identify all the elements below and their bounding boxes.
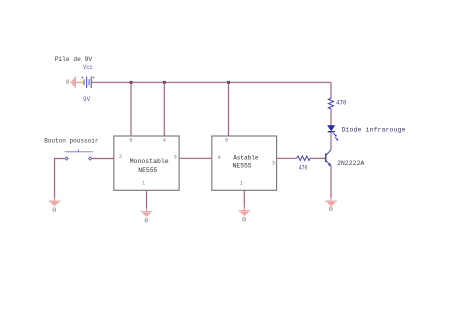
svg-text:1: 1 bbox=[142, 180, 145, 186]
resistor R2 470 horizontal bbox=[297, 156, 311, 161]
ground under button bbox=[49, 198, 61, 206]
svg-text:Astable: Astable bbox=[233, 154, 258, 161]
svg-text:8: 8 bbox=[225, 138, 228, 144]
pin 3 astable bbox=[272, 160, 275, 166]
wire rail to monostable pin 4 bbox=[163, 82, 165, 136]
svg-text:2N2222A: 2N2222A bbox=[337, 160, 364, 167]
pin 4 monostable bbox=[163, 138, 166, 144]
label 470 horizontal bbox=[299, 165, 308, 172]
svg-text:Bouton poussoir: Bouton poussoir bbox=[44, 137, 98, 144]
ground at battery (rotated) bbox=[71, 77, 84, 88]
wire rail to astable pin 8 bbox=[228, 82, 230, 136]
pin 8 monostable bbox=[129, 138, 132, 144]
svg-text:Monostable: Monostable bbox=[130, 158, 169, 165]
label Vcc bbox=[83, 64, 93, 71]
pin 1 astable bbox=[240, 181, 243, 187]
ground under astable bbox=[239, 207, 251, 215]
svg-text:0: 0 bbox=[329, 206, 333, 214]
svg-text:8: 8 bbox=[129, 138, 132, 144]
wire monostable pin3 to astable pin4 bbox=[179, 157, 212, 159]
junction at pin4 monostable bbox=[163, 81, 166, 84]
label 470 vertical bbox=[336, 100, 347, 107]
label Bouton poussoir bbox=[44, 137, 98, 144]
svg-text:2: 2 bbox=[119, 154, 122, 160]
svg-text:Vcc: Vcc bbox=[83, 64, 93, 71]
pin 1 monostable bbox=[142, 180, 145, 186]
label Astable bbox=[233, 154, 258, 161]
svg-text:4: 4 bbox=[163, 138, 166, 144]
op box astable NE555 U2 bbox=[212, 136, 277, 190]
op box monostable NE555 U1 bbox=[114, 136, 179, 190]
svg-text:470: 470 bbox=[299, 165, 308, 172]
battery V1 9V bbox=[82, 77, 95, 89]
ground under monostable bbox=[141, 208, 153, 216]
svg-text:0: 0 bbox=[52, 207, 56, 215]
pushbutton SW1 bbox=[65, 149, 93, 160]
wire resistor R2 to transistor base bbox=[310, 157, 325, 159]
wire rail to monostable pin 8 bbox=[130, 82, 132, 136]
node 0 at battery bbox=[66, 79, 70, 86]
svg-text:1: 1 bbox=[240, 181, 243, 187]
pin 8 astable bbox=[225, 138, 228, 144]
node 0 under transistor bbox=[329, 206, 333, 214]
label 9V bbox=[83, 96, 90, 103]
wire astable pin3 to resistor R2 bbox=[277, 157, 297, 159]
wire button left to ground bbox=[55, 159, 65, 199]
label 2N2222A bbox=[337, 160, 364, 167]
junction at pin8 monostable bbox=[130, 81, 133, 84]
label Pile de 9V bbox=[55, 56, 93, 63]
resistor R1 470 vertical bbox=[328, 98, 333, 110]
label Diode infrarouge bbox=[342, 127, 406, 134]
svg-text:3: 3 bbox=[272, 160, 275, 166]
node 0 under astable bbox=[242, 217, 246, 225]
svg-text:NE555: NE555 bbox=[138, 167, 157, 174]
node 0 under button bbox=[52, 207, 56, 215]
wire Vcc rail bbox=[92, 82, 331, 98]
wire astable pin1 to ground bbox=[243, 190, 245, 207]
pin 2 monostable bbox=[119, 154, 122, 160]
label NE555 monostable bbox=[138, 167, 157, 174]
pin 4 astable bbox=[217, 155, 220, 161]
svg-text:Diode infrarouge: Diode infrarouge bbox=[342, 127, 406, 134]
junction at pin8 astable bbox=[227, 81, 230, 84]
svg-text:470: 470 bbox=[336, 100, 347, 107]
wire monostable pin1 to ground bbox=[146, 190, 148, 208]
wire transistor emitter to ground bbox=[330, 166, 332, 198]
label Monostable bbox=[130, 158, 169, 165]
svg-text:9V: 9V bbox=[83, 96, 90, 103]
svg-text:0: 0 bbox=[66, 79, 70, 86]
node 0 under monostable bbox=[144, 218, 148, 226]
svg-text:3: 3 bbox=[174, 154, 177, 160]
wire button to monostable pin 2 bbox=[92, 158, 114, 160]
wire resistor R1 to LED bbox=[330, 110, 332, 126]
svg-text:Pile de 9V: Pile de 9V bbox=[55, 56, 93, 63]
svg-text:0: 0 bbox=[242, 217, 246, 225]
svg-text:0: 0 bbox=[144, 218, 148, 226]
LED D1 infrared diode bbox=[328, 126, 339, 141]
svg-text:4: 4 bbox=[217, 155, 220, 161]
transistor Q1 2N2222A bbox=[326, 150, 331, 166]
label NE555 astable bbox=[233, 163, 252, 170]
ground under transistor bbox=[325, 198, 337, 206]
svg-text:NE555: NE555 bbox=[233, 163, 252, 170]
wire LED to transistor collector bbox=[330, 132, 332, 149]
pin 3 monostable bbox=[174, 154, 177, 160]
